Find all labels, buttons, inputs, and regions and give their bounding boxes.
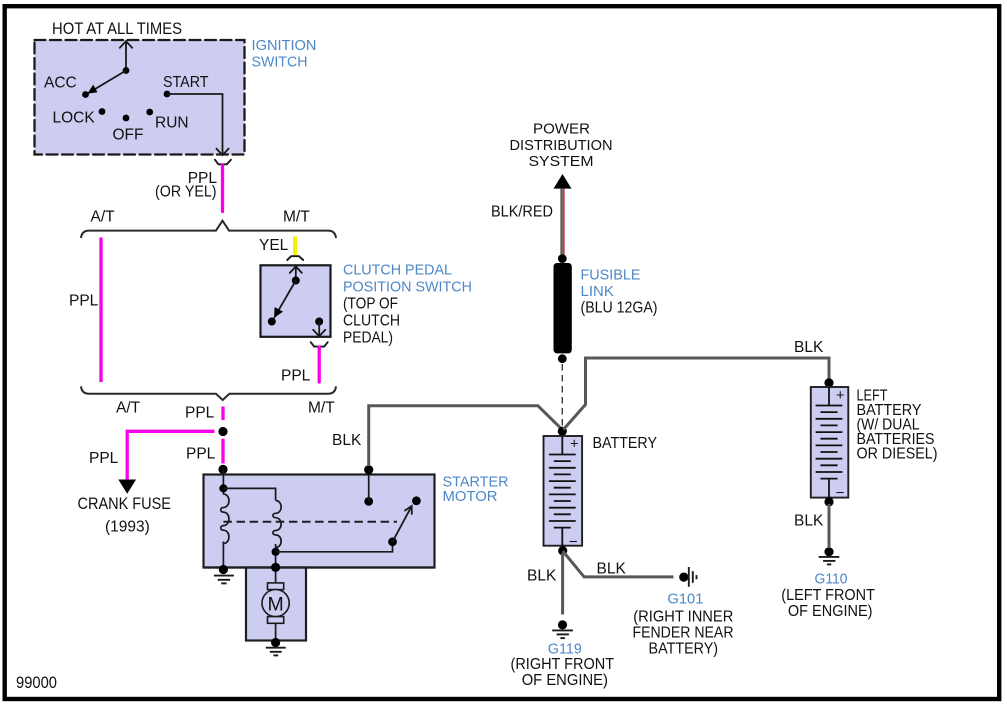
wire: S terminal into box	[222, 469, 224, 494]
node below fusible link	[558, 354, 567, 363]
CRANK SECTION	[78, 407, 228, 536]
dashed tie to battery positive	[561, 364, 563, 426]
left battery negative node	[824, 497, 833, 506]
wire BLK to left battery	[563, 358, 829, 430]
ground G101	[679, 573, 688, 582]
svg-text:PPL: PPL	[281, 368, 311, 385]
battery cell plates	[549, 436, 576, 546]
splice brace upper (A/T / M/T split)	[81, 221, 336, 238]
solenoid fixed contact node (upper right)	[412, 496, 421, 505]
ignition switch S1 box	[35, 40, 245, 155]
svg-text:FUSIBLE: FUSIBLE	[581, 267, 641, 284]
wire: motor node into solenoid housing	[275, 568, 277, 584]
wire: box top to battery contact	[368, 475, 370, 502]
LEFT BATTERY SECTION	[563, 339, 937, 620]
svg-text:G119: G119	[548, 640, 582, 657]
wire: motor node to contact arm	[276, 542, 393, 552]
node at box bottom	[219, 565, 228, 574]
svg-text:OFF: OFF	[113, 127, 144, 144]
left battery B2 box	[811, 387, 849, 498]
svg-text:DISTRIBUTION: DISTRIBUTION	[510, 137, 613, 154]
wire: hold-in winding to case ground	[222, 542, 224, 570]
svg-text:POSITION SWITCH: POSITION SWITCH	[343, 279, 472, 296]
wire: switch common to HOT (up arrow)	[120, 41, 132, 70]
wire PPL from clutch switch	[318, 347, 321, 382]
svg-text:SYSTEM: SYSTEM	[529, 153, 594, 170]
starter solenoid housing (motor extension box)	[246, 568, 306, 641]
battery terminal node inside box	[364, 497, 373, 506]
node: BLK wire terminal	[364, 465, 373, 474]
switch input arrow (up)	[290, 267, 302, 281]
svg-text:POWER: POWER	[533, 121, 590, 138]
solenoid contact arm pivot node	[388, 537, 397, 546]
connector C2 half-shell (above clutch switch)	[287, 256, 303, 260]
IGNITION SECTION	[35, 20, 317, 212]
svg-text:M/T: M/T	[308, 399, 335, 416]
svg-text:PPL: PPL	[89, 450, 119, 467]
svg-text:99000: 99000	[16, 674, 57, 692]
svg-text:LINK: LINK	[581, 283, 614, 300]
svg-text:(TOP OF: (TOP OF	[343, 296, 398, 313]
svg-text:HOT AT ALL TIMES: HOT AT ALL TIMES	[52, 20, 182, 38]
svg-text:BATTERY): BATTERY)	[649, 640, 719, 657]
node LOCK	[99, 108, 106, 115]
wire BLK/RED	[560, 189, 562, 255]
svg-text:OR DIESEL): OR DIESEL)	[857, 445, 938, 462]
svg-text:(1993): (1993)	[105, 519, 150, 536]
starter S terminal node	[218, 465, 227, 474]
wire PPL A/T branch	[99, 238, 102, 383]
motor M1 bottom brush	[268, 617, 284, 624]
switch pivot node	[123, 67, 130, 74]
wire BLK starter to battery	[369, 406, 563, 466]
svg-text:(RIGHT FRONT: (RIGHT FRONT	[511, 656, 615, 673]
solenoid hold-in winding L1	[221, 494, 229, 543]
wire YEL M/T branch	[293, 237, 297, 256]
node: coil junction	[219, 484, 227, 492]
battery positive node	[558, 427, 567, 436]
redraw shared edge	[204, 566, 435, 568]
CLUTCH SECTION	[261, 256, 473, 385]
svg-text:MOTOR: MOTOR	[443, 488, 498, 505]
starter motor box	[204, 475, 435, 568]
fusible link F1	[554, 263, 572, 353]
node: motor junction	[272, 548, 280, 556]
splice node S100	[218, 427, 227, 436]
svg-text:OF ENGINE): OF ENGINE)	[522, 672, 608, 689]
svg-text:+: +	[570, 437, 578, 453]
svg-text:BLK: BLK	[794, 513, 824, 530]
switch input node	[292, 277, 300, 285]
svg-text:A/T: A/T	[91, 209, 116, 226]
svg-text:−: −	[836, 485, 845, 502]
switch output node	[315, 318, 323, 326]
mechanical linkage (dashed)	[223, 521, 397, 523]
motor M1 body	[262, 590, 289, 617]
wire: START to connector (down arrow)	[167, 94, 229, 155]
svg-text:(OR YEL): (OR YEL)	[155, 184, 217, 201]
svg-text:(LEFT FRONT: (LEFT FRONT	[781, 587, 875, 604]
ground (motor case)	[266, 648, 286, 656]
svg-text:BLK: BLK	[794, 339, 824, 356]
wire PPL merged (dashed segment 1)	[221, 407, 224, 421]
svg-text:(RIGHT INNER: (RIGHT INNER	[633, 608, 733, 625]
svg-text:FENDER NEAR: FENDER NEAR	[633, 624, 734, 641]
svg-text:G110: G110	[815, 570, 848, 587]
wire BLK battery to G101	[563, 551, 674, 577]
node RUN	[146, 109, 153, 116]
wire: motor to ground	[275, 623, 277, 639]
svg-text:(BLU 12GA): (BLU 12GA)	[581, 299, 658, 316]
wire PPL to crank fuse (horizontal + down)	[127, 431, 214, 480]
svg-text:BLK: BLK	[332, 432, 362, 449]
svg-text:−: −	[569, 534, 578, 551]
wire BLK battery to G119	[561, 553, 564, 615]
svg-text:BLK/RED: BLK/RED	[491, 204, 553, 221]
node OFF	[123, 115, 130, 122]
svg-text:PEDAL): PEDAL)	[343, 330, 393, 347]
left battery cell plates	[816, 387, 843, 498]
svg-text:CLUTCH: CLUTCH	[343, 313, 400, 330]
svg-text:RUN: RUN	[155, 115, 189, 132]
arrow to power distribution system	[554, 174, 572, 189]
node ACC	[82, 91, 89, 98]
wire PPL to starter (dashed segment 2)	[221, 439, 224, 464]
left battery positive node	[824, 378, 833, 387]
battery negative node	[558, 546, 567, 555]
solenoid contact arm (arrow)	[393, 506, 412, 542]
node START	[164, 91, 171, 98]
crank fuse feed arrow	[118, 480, 136, 494]
svg-text:PPL: PPL	[185, 405, 215, 422]
switch wiper arm	[275, 281, 296, 318]
svg-text:START: START	[163, 74, 209, 91]
svg-text:BLK: BLK	[527, 568, 557, 585]
battery B1 box	[544, 436, 583, 546]
svg-text:CLUTCH PEDAL: CLUTCH PEDAL	[343, 262, 452, 279]
ground G110	[824, 547, 833, 556]
svg-text:M/T: M/T	[283, 209, 310, 226]
switch wiper arm to ACC	[89, 71, 126, 93]
svg-text:SWITCH: SWITCH	[252, 53, 308, 70]
splice brace lower (A/T / M/T merge)	[81, 386, 336, 400]
svg-text:OF ENGINE): OF ENGINE)	[788, 603, 873, 620]
svg-text:G101: G101	[667, 590, 703, 607]
svg-text:ACC: ACC	[44, 75, 77, 92]
svg-text:PPL: PPL	[69, 293, 99, 310]
STARTER SECTION	[204, 406, 563, 656]
solenoid pull-in winding L2	[273, 501, 281, 548]
switch contact node (lower left)	[268, 318, 276, 326]
svg-text:LOCK: LOCK	[53, 110, 96, 127]
ground (starter case)	[214, 576, 234, 584]
wire: pull-in winding to motor node	[275, 544, 277, 568]
node above fusible link	[558, 254, 567, 263]
node at shared edge	[271, 563, 280, 572]
svg-text:BATTERY: BATTERY	[593, 435, 658, 452]
svg-text:A/T: A/T	[116, 399, 141, 416]
connector C1 half-shell	[215, 160, 231, 165]
clutch pedal position switch S2 box	[261, 265, 331, 337]
ground G119	[558, 620, 567, 629]
BRANCH SECTION	[69, 209, 336, 422]
svg-text:IGNITION: IGNITION	[252, 37, 317, 54]
svg-text:+: +	[836, 388, 844, 404]
svg-text:BLK: BLK	[597, 560, 627, 577]
BATTERY SECTION	[511, 427, 734, 689]
wire to pull-in winding	[223, 488, 275, 500]
switch output arrow (down)	[313, 322, 325, 337]
svg-text:PPL: PPL	[186, 445, 216, 462]
wire PPL (OR YEL) from ignition	[221, 165, 224, 212]
svg-text:M: M	[267, 593, 283, 615]
POWER/FUSIBLE SECTION	[491, 121, 658, 426]
connector C3 half-shell (below clutch switch)	[311, 342, 328, 346]
wire BLK left battery to G110	[828, 504, 831, 547]
svg-text:YEL: YEL	[259, 237, 289, 254]
svg-text:CRANK FUSE: CRANK FUSE	[78, 495, 172, 513]
motor M1 top brush	[268, 583, 284, 590]
node at housing bottom	[271, 638, 280, 647]
